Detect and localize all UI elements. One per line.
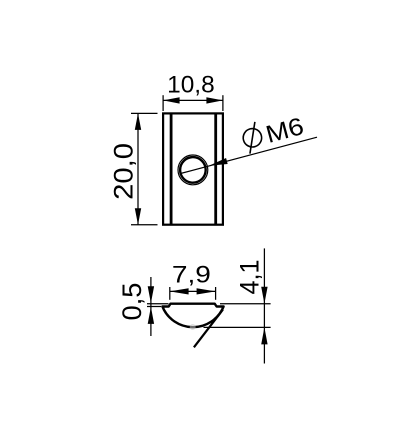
dim 10,8 extension line right [222, 95, 224, 111]
dim 4,1 extension line top [220, 303, 271, 305]
dim 20,0 extension line bottom [131, 224, 158, 226]
dim 4,1 extension line bottom [204, 326, 271, 328]
leader line to M6 callout [181, 137, 317, 173]
svg-text:10,8: 10,8 [167, 71, 215, 98]
svg-text:M6: M6 [263, 113, 307, 149]
dim 0,5 extension line bottom [147, 306, 161, 308]
callout text group: diameter symbol and M6 [240, 110, 307, 155]
top view right inner edge line [214, 113, 217, 224]
svg-text:0,5: 0,5 [117, 283, 147, 321]
dim 7,9 right arrow [197, 288, 216, 294]
svg-text:20,0: 20,0 [108, 143, 138, 200]
diameter symbol slash [242, 122, 262, 154]
dim 10,8 dimension line [163, 99, 223, 101]
dim 7,9 dimension line [170, 290, 216, 292]
diameter symbol circle [241, 127, 264, 150]
top view body outline [163, 113, 223, 224]
svg-text:4,1: 4,1 [235, 260, 265, 295]
dim 4,1 upper arrow (pointing down) [261, 287, 267, 304]
svg-text:7,9: 7,9 [172, 261, 211, 288]
grey dot at arc bottom [190, 324, 196, 330]
dim 0,5 dimension line [150, 277, 152, 336]
dim 20,0 bottom arrow [135, 208, 141, 225]
dim 7,9 extension line left [169, 287, 171, 300]
dim 7,9 left arrow [170, 288, 189, 294]
dim 10,8 left arrow [163, 97, 180, 103]
dim 0,5 extension line top [147, 303, 169, 305]
thread inner circle (hole) [180, 157, 206, 183]
dim 10,8 right arrow [206, 97, 223, 103]
dim 10,8 extension line left [162, 95, 164, 111]
dim 20,0 top arrow [135, 113, 141, 129]
dim 4,1 lower arrow (pointing up) [261, 327, 267, 344]
dim 7,9 extension line right [215, 287, 217, 300]
dim 4,1 dimension line [263, 248, 265, 363]
dim 0,5 lower arrow (pointing up) [148, 307, 154, 324]
top view left inner edge line [170, 113, 173, 224]
dim 20,0 dimension line [137, 113, 139, 224]
diagonal line through side view [194, 310, 223, 348]
thread outer circle (M6 major dia) [178, 155, 208, 185]
dim 20,0 extension line top [131, 112, 158, 114]
leader arrowhead [208, 158, 227, 169]
side view profile outline [162, 304, 223, 327]
dim 0,5 upper arrow (pointing down) [148, 286, 154, 303]
